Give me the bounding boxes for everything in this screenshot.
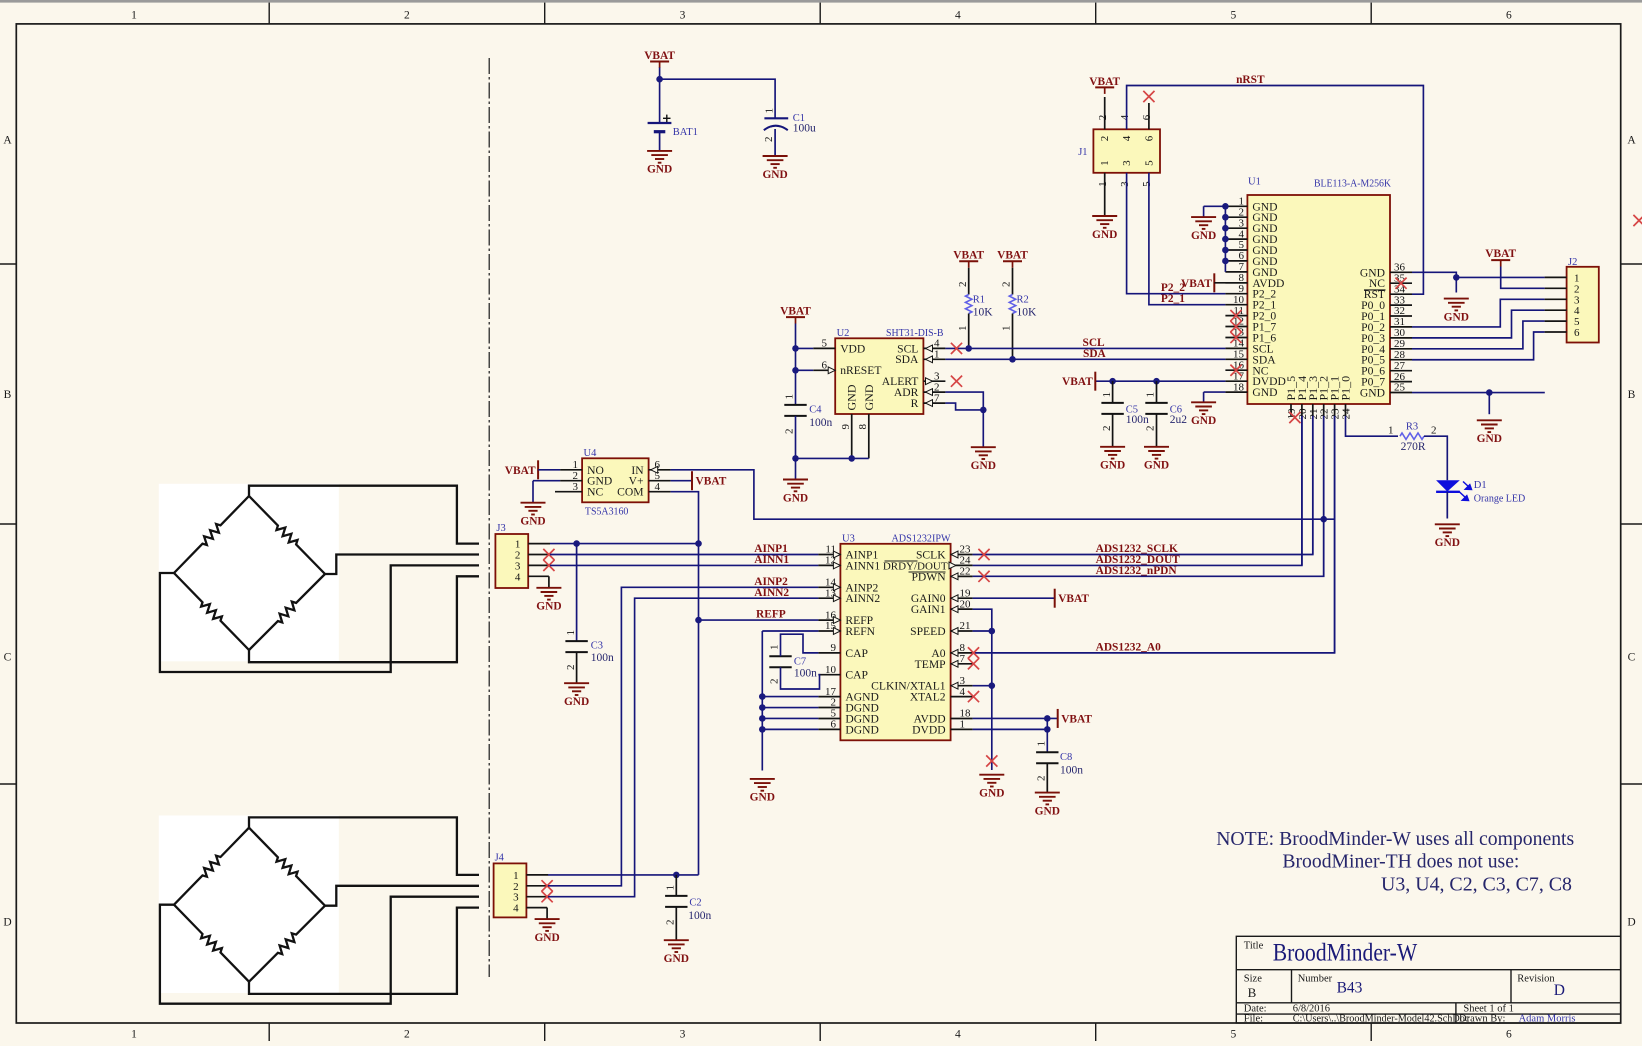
ground (U2/C4)	[783, 480, 808, 492]
connector J3	[495, 534, 528, 588]
J2 pin stubs	[1545, 277, 1567, 332]
svg-text:21: 21	[960, 620, 971, 632]
wire U1 pin25 GND	[1412, 392, 1545, 394]
J1 pin 1 stub to ground	[1104, 173, 1106, 216]
title block frame	[1236, 936, 1620, 1023]
svg-text:VBAT: VBAT	[1061, 713, 1092, 725]
wire U1 DVDD to VBAT rail	[1095, 380, 1225, 382]
svg-text:5: 5	[1231, 10, 1237, 22]
ground (U3 clock rail)	[979, 775, 1004, 787]
svg-text:File:: File:	[1244, 1014, 1263, 1025]
svg-text:AINN2: AINN2	[845, 592, 880, 605]
svg-text:1: 1	[665, 885, 677, 891]
svg-text:GND: GND	[1191, 415, 1216, 427]
bridge wire bottom vertex to connector pin4	[249, 576, 479, 662]
ground (J4 pin4)	[535, 919, 560, 931]
junction ADR R	[980, 407, 987, 414]
U3 pin names	[845, 549, 947, 737]
svg-text:1: 1	[1145, 392, 1157, 398]
svg-text:GND: GND	[1435, 537, 1460, 549]
svg-text:GND: GND	[1191, 230, 1216, 242]
svg-text:1: 1	[1036, 741, 1048, 747]
svg-text:U3, U4, C2, C3, C7, C8: U3, U4, C2, C3, C7, C8	[1381, 874, 1572, 896]
ground (U1 pin36/J2)	[1444, 299, 1469, 311]
U3 right pin stubs	[951, 555, 973, 730]
wire ADS1232_SCLK	[973, 416, 1313, 555]
wire DGND 5	[762, 717, 818, 719]
svg-text:P2_1: P2_1	[1161, 293, 1185, 305]
capacitor C8	[1046, 718, 1048, 752]
svg-text:2: 2	[665, 920, 677, 926]
junction IN P1_2	[1320, 516, 1327, 523]
wire U1 pin36 GND to J2 pin1	[1412, 272, 1545, 277]
svg-text:2: 2	[769, 679, 781, 685]
junction C5 rail	[1109, 378, 1116, 385]
svg-text:100n: 100n	[1060, 765, 1083, 777]
svg-text:10K: 10K	[973, 307, 994, 319]
svg-text:Drawn By:: Drawn By:	[1459, 1014, 1505, 1025]
J4 pin numbers	[513, 870, 519, 915]
bridge wire right vertex to connector pin2	[325, 886, 479, 906]
svg-text:2: 2	[565, 665, 577, 671]
U1 left pin numbers	[1233, 196, 1245, 394]
svg-text:3: 3	[680, 10, 686, 22]
LED D1 emission arrows	[1459, 482, 1472, 501]
junction REFP COM	[695, 617, 702, 624]
J1 pin 2 stub	[1104, 97, 1106, 129]
svg-text:1: 1	[565, 630, 577, 636]
svg-text:100n: 100n	[794, 668, 817, 680]
no-ERC marker A0	[968, 647, 979, 658]
wire U4 GND pin	[533, 480, 560, 482]
resistor R3	[1400, 433, 1424, 439]
wire REFN rail	[762, 630, 818, 632]
svg-text:D: D	[1627, 917, 1635, 929]
wire U4 COM vertical	[671, 492, 699, 875]
svg-text:VBAT: VBAT	[1058, 593, 1089, 605]
J4 pin stubs	[526, 875, 548, 919]
svg-text:B: B	[1248, 985, 1257, 1000]
J3 pin numbers	[515, 539, 521, 584]
svg-text:GND: GND	[971, 460, 996, 472]
svg-text:2: 2	[404, 1029, 410, 1041]
svg-text:NC: NC	[587, 486, 603, 499]
svg-text:GND: GND	[664, 953, 689, 965]
svg-text:C8: C8	[1060, 752, 1072, 763]
svg-text:U1: U1	[1248, 177, 1261, 188]
junction DVDD	[1044, 726, 1051, 733]
wire C7 bottom to CAP pin10	[781, 667, 820, 689]
ground (C3)	[564, 683, 589, 695]
wire U2 bottom gnd rail	[796, 457, 869, 459]
svg-text:GND: GND	[845, 384, 859, 410]
svg-text:R1: R1	[973, 295, 985, 306]
wire P2_2 J1 pin3	[1127, 173, 1226, 294]
svg-text:CAP: CAP	[845, 647, 868, 660]
no-ERC marker XTAL2	[968, 691, 979, 702]
svg-text:2: 2	[1145, 426, 1157, 432]
svg-text:CAP: CAP	[845, 669, 868, 682]
svg-text:VBAT: VBAT	[953, 250, 984, 262]
svg-text:GND: GND	[1100, 460, 1125, 472]
svg-text:J4: J4	[495, 852, 505, 863]
svg-text:100n: 100n	[591, 652, 614, 664]
analog switch U4 TS5A3160 body	[582, 458, 649, 502]
junction SDA R2	[1009, 356, 1016, 363]
wire P0_4 to J2 pin5	[1412, 321, 1545, 349]
svg-text:REFP: REFP	[756, 609, 786, 621]
svg-text:1: 1	[131, 10, 137, 22]
capacitor C2	[675, 875, 677, 896]
wire P2_1 J1 pin5	[1149, 173, 1226, 305]
svg-text:5: 5	[1143, 160, 1155, 166]
wire P1_4 to DOUT	[1301, 416, 1303, 566]
resistor R1	[968, 268, 970, 295]
svg-text:4: 4	[960, 686, 966, 698]
svg-text:C7: C7	[794, 657, 806, 668]
bridge wire top vertex to connector pin1	[249, 817, 479, 875]
svg-text:VBAT: VBAT	[644, 50, 675, 62]
wire P1_1 to A0	[1334, 416, 1336, 653]
svg-text:7: 7	[960, 653, 966, 665]
svg-text:5: 5	[1141, 181, 1153, 187]
svg-text:18: 18	[1233, 381, 1245, 393]
svg-text:VBAT: VBAT	[1062, 376, 1093, 388]
svg-text:GND: GND	[1035, 805, 1060, 817]
svg-text:2u2: 2u2	[1170, 414, 1188, 426]
junction AVDD	[1044, 715, 1051, 722]
wire AGND	[762, 696, 818, 698]
svg-text:GND: GND	[862, 384, 876, 410]
svg-text:AINN2: AINN2	[754, 587, 789, 599]
wire P0_3 to J2 pin4	[1412, 310, 1545, 338]
svg-text:AINN1: AINN1	[754, 554, 789, 566]
border zone ticks top	[269, 3, 1371, 24]
svg-text:C: C	[1628, 652, 1636, 664]
svg-text:Orange LED: Orange LED	[1474, 494, 1526, 505]
svg-text:10K: 10K	[1017, 307, 1038, 319]
svg-text:2: 2	[1001, 282, 1013, 288]
ground (U4)	[521, 503, 546, 515]
load cell bridge background	[159, 816, 339, 994]
svg-text:TS5A3160: TS5A3160	[585, 507, 629, 518]
svg-text:100n: 100n	[688, 910, 711, 922]
ground bus wire U1 pins 1-7	[1224, 206, 1226, 272]
svg-text:270R: 270R	[1401, 441, 1426, 453]
svg-text:Adam Morris: Adam Morris	[1519, 1014, 1576, 1025]
svg-text:1: 1	[763, 108, 775, 114]
no-ERC marker J1 pin 6	[1143, 91, 1154, 102]
svg-text:Revision: Revision	[1517, 974, 1555, 985]
svg-text:GND: GND	[647, 164, 672, 176]
svg-text:P1_0: P1_0	[1339, 376, 1353, 401]
svg-text:VBAT: VBAT	[1485, 248, 1516, 260]
svg-text:R2: R2	[1017, 295, 1029, 306]
svg-text:D: D	[3, 917, 11, 929]
svg-text:BroodMinder-W: BroodMinder-W	[1273, 940, 1418, 967]
svg-text:R: R	[911, 397, 919, 410]
svg-text:SDA: SDA	[1083, 348, 1107, 360]
svg-text:100n: 100n	[809, 417, 832, 429]
wire SDA	[945, 358, 1225, 360]
svg-text:2: 2	[1097, 115, 1109, 121]
svg-text:GND: GND	[564, 696, 589, 708]
no-ERC marker U1 pin 19	[1289, 412, 1300, 423]
svg-text:4: 4	[513, 903, 519, 915]
bridge wire right vertex to connector pin2	[325, 555, 479, 575]
svg-text:1: 1	[1101, 392, 1113, 398]
wire VBAT to J2 pin2	[1501, 267, 1545, 289]
border zone numbers bottom	[131, 1029, 1512, 1041]
svg-text:NOTE: BroodMinder-W uses all c: NOTE: BroodMinder-W uses all components	[1216, 828, 1574, 850]
svg-text:GAIN1: GAIN1	[911, 603, 946, 616]
junction CLKIN	[989, 682, 996, 689]
U4 pin stubs	[555, 470, 671, 492]
svg-text:ADS1232_nPDN: ADS1232_nPDN	[1096, 565, 1178, 577]
bridge wire left vertex to connector pin3	[160, 565, 479, 672]
border zone letters right	[1627, 135, 1636, 929]
wire VBAT battery to C1	[659, 68, 661, 124]
no-ERC marker U1 pin 35	[1395, 278, 1406, 289]
svg-text:2: 2	[1431, 424, 1437, 436]
svg-text:nRST: nRST	[1236, 74, 1265, 86]
svg-text:Title: Title	[1244, 941, 1264, 952]
junction J3 pin1 COM	[695, 540, 702, 547]
U1 bottom pin names P1_5..P1_0	[1284, 376, 1353, 401]
svg-text:D: D	[1554, 982, 1565, 999]
ground (C6)	[1144, 447, 1169, 459]
ground (J3 pin4)	[536, 588, 561, 600]
ground (U1 pin25)	[1477, 420, 1502, 432]
svg-text:4: 4	[955, 1029, 961, 1041]
svg-text:ADS1232_A0: ADS1232_A0	[1096, 641, 1161, 653]
U3 pin numbers	[825, 544, 971, 731]
capacitor C4	[784, 405, 806, 416]
ground (C5)	[1100, 447, 1125, 459]
load cell bridge diamond with resistors	[174, 496, 249, 573]
ground (U1 pin18)	[1191, 402, 1216, 414]
vertical dash-dot partition line	[488, 58, 490, 977]
no-ERC marker SCL	[951, 343, 962, 354]
U3 pin arrows	[833, 551, 840, 558]
no-ERC marker PDWN	[978, 571, 989, 582]
svg-text:6: 6	[1141, 114, 1153, 120]
wire P0_2 to J2 pin3	[1412, 299, 1545, 327]
wire DGND 2	[762, 707, 818, 709]
svg-text:GND: GND	[1144, 460, 1169, 472]
svg-text:GND: GND	[1092, 229, 1117, 241]
ground (BAT1)	[647, 151, 672, 163]
junctions DGND rail	[759, 693, 766, 700]
svg-text:C3: C3	[591, 641, 603, 652]
wire P1_2 to PDWN	[1323, 416, 1325, 576]
svg-text:C: C	[4, 652, 12, 664]
note text	[1216, 828, 1574, 896]
svg-text:1: 1	[784, 394, 796, 400]
title block labels	[1244, 941, 1556, 1025]
svg-text:U4: U4	[584, 448, 598, 459]
wire U4 IN to P1_2 net	[671, 470, 1335, 519]
ground (U3 DGND rail)	[750, 779, 775, 791]
junction U2 nRESET	[792, 367, 799, 374]
svg-text:GND: GND	[762, 169, 787, 181]
svg-text:VBAT: VBAT	[505, 465, 536, 477]
svg-text:COM: COM	[617, 486, 643, 499]
ground (J1 pin 1)	[1092, 216, 1117, 228]
svg-text:100u: 100u	[793, 122, 816, 134]
svg-text:REFN: REFN	[845, 625, 875, 638]
svg-text:C2: C2	[689, 898, 701, 909]
power port VBAT (GAIN0)	[1055, 589, 1090, 608]
svg-text:2: 2	[1101, 426, 1113, 432]
power port VBAT (U4 NO)	[505, 460, 538, 479]
junction pin36 gnd	[1453, 274, 1460, 281]
svg-text:6: 6	[831, 719, 837, 731]
svg-text:2: 2	[1036, 776, 1048, 782]
U4 pin numbers	[573, 459, 661, 493]
svg-text:SPEED: SPEED	[910, 625, 945, 638]
svg-text:100n: 100n	[1126, 414, 1149, 426]
svg-text:4: 4	[955, 10, 961, 22]
junction SPEED	[989, 628, 996, 635]
no-ERC marker GAIN1 rail gnd	[986, 755, 997, 766]
ground (C1)	[763, 156, 788, 168]
junctions U1 ground bus	[1222, 203, 1229, 264]
svg-text:6: 6	[1574, 327, 1580, 339]
svg-text:BroodMiner-TH does not use:: BroodMiner-TH does not use:	[1282, 851, 1519, 873]
U2 pin numbers	[822, 338, 941, 405]
bridge wire bottom vertex to connector pin4	[249, 908, 479, 994]
U3 DRDY overline	[885, 560, 918, 562]
junction U2 pin9	[848, 455, 855, 462]
wire GAIN0 to VBAT	[973, 597, 1055, 599]
svg-text:TEMP: TEMP	[915, 658, 946, 671]
svg-text:1: 1	[1099, 160, 1111, 166]
svg-text:4: 4	[1119, 114, 1131, 120]
junction U2 VDD	[792, 345, 799, 352]
no-ERC marker SCLK	[978, 549, 989, 560]
svg-text:ADS1232IPW: ADS1232IPW	[892, 534, 951, 545]
svg-text:10: 10	[825, 664, 837, 676]
power port VBAT (U1 AVDD)	[1181, 273, 1214, 292]
svg-text:R3: R3	[1406, 421, 1418, 432]
svg-text:1: 1	[769, 645, 781, 651]
svg-text:VBAT: VBAT	[997, 250, 1028, 262]
svg-text:J1: J1	[1078, 147, 1087, 158]
U1 left pin names	[1252, 200, 1286, 399]
J1 pin 6 stub	[1148, 103, 1150, 129]
U1 right pin names	[1360, 266, 1385, 399]
LED D1	[1436, 480, 1460, 518]
U1 bottom pin stubs	[1291, 404, 1346, 416]
U4 pin names	[587, 464, 644, 499]
svg-text:2: 2	[763, 137, 775, 143]
svg-text:1: 1	[960, 719, 966, 731]
capacitor C7	[769, 656, 791, 667]
power port VBAT (U4 V+)	[671, 480, 692, 482]
svg-text:U2: U2	[837, 328, 850, 339]
svg-text:Size: Size	[1244, 974, 1262, 985]
connector J4	[494, 863, 527, 917]
svg-text:3: 3	[1119, 181, 1131, 187]
svg-text:C4: C4	[809, 405, 822, 416]
wire ADS1232_A0	[973, 416, 1335, 653]
svg-text:C:\Users\..\BroodMinder-Model4: C:\Users\..\BroodMinder-Model42.SchDoc	[1293, 1014, 1470, 1025]
wire down to ground (pin36)	[1455, 277, 1457, 292]
sheet top gray strip	[0, 0, 1642, 3]
no-ERC markers U1 pins 11 12 13 16	[1230, 310, 1241, 376]
power port VBAT (U2)	[780, 306, 811, 324]
ground (D1)	[1435, 524, 1460, 536]
svg-text:DVDD: DVDD	[912, 723, 946, 736]
border zone ticks left	[0, 264, 16, 784]
battery BAT1	[648, 115, 672, 151]
border zone ticks right	[1621, 264, 1642, 784]
svg-text:1: 1	[131, 1029, 137, 1041]
svg-text:XTAL2: XTAL2	[910, 691, 946, 704]
svg-text:4: 4	[1121, 135, 1133, 141]
svg-text:GND: GND	[1360, 387, 1385, 400]
wire J3 pin1 net	[550, 543, 699, 545]
sensor U2 SHT31-DIS-B body	[835, 338, 923, 414]
wire DGND 6	[762, 728, 818, 730]
svg-text:3: 3	[680, 1029, 686, 1041]
junction SCL R1	[965, 345, 972, 352]
svg-text:2: 2	[404, 10, 410, 22]
U2 pin arrows	[828, 367, 835, 374]
svg-text:8: 8	[857, 424, 869, 430]
no-ERC marker right border	[1633, 215, 1642, 226]
svg-text:B: B	[1628, 389, 1636, 401]
power port VBAT (battery)	[644, 50, 675, 68]
svg-text:J3: J3	[496, 523, 505, 534]
no-ERC marker ALERT	[951, 376, 962, 387]
svg-text:B: B	[4, 389, 12, 401]
load cell bridge background	[159, 484, 339, 662]
svg-text:SDA: SDA	[895, 353, 919, 366]
svg-text:AINN1: AINN1	[845, 559, 880, 572]
svg-text:6: 6	[1506, 1029, 1512, 1041]
U2 pin stubs	[813, 348, 945, 458]
wire VBAT rail U2	[795, 324, 797, 405]
svg-text:2: 2	[957, 282, 969, 288]
svg-text:nRESET: nRESET	[840, 364, 881, 377]
border zone letters left	[3, 135, 12, 929]
svg-text:9: 9	[831, 642, 837, 654]
wire ADS1232_DOUT	[973, 416, 1302, 566]
svg-text:4: 4	[515, 571, 521, 583]
ground (U2 ADR)	[971, 447, 996, 459]
U3 PDWN overline	[909, 571, 946, 573]
wire AINN2	[548, 598, 818, 897]
power port VBAT (AVDD)	[1058, 709, 1093, 728]
svg-text:GND: GND	[1252, 386, 1277, 399]
wire J4 pin1 net	[548, 874, 699, 876]
ground (C8)	[1035, 793, 1060, 805]
adc U3 ADS1232IPW body	[840, 544, 950, 741]
U4 IN pin arrow	[651, 466, 658, 473]
power port VBAT (J2 pin2)	[1485, 248, 1516, 266]
svg-text:VBAT: VBAT	[1089, 76, 1120, 88]
svg-text:BLE113-A-M256K: BLE113-A-M256K	[1314, 179, 1391, 190]
J3 pin stubs	[528, 544, 550, 588]
svg-text:DGND: DGND	[845, 723, 879, 736]
svg-text:BAT1: BAT1	[673, 127, 698, 138]
wire C7 top to CAP pin9	[781, 634, 819, 656]
svg-text:9: 9	[840, 424, 852, 430]
U1 RST overline	[1364, 289, 1386, 291]
wire REFP	[699, 619, 819, 621]
